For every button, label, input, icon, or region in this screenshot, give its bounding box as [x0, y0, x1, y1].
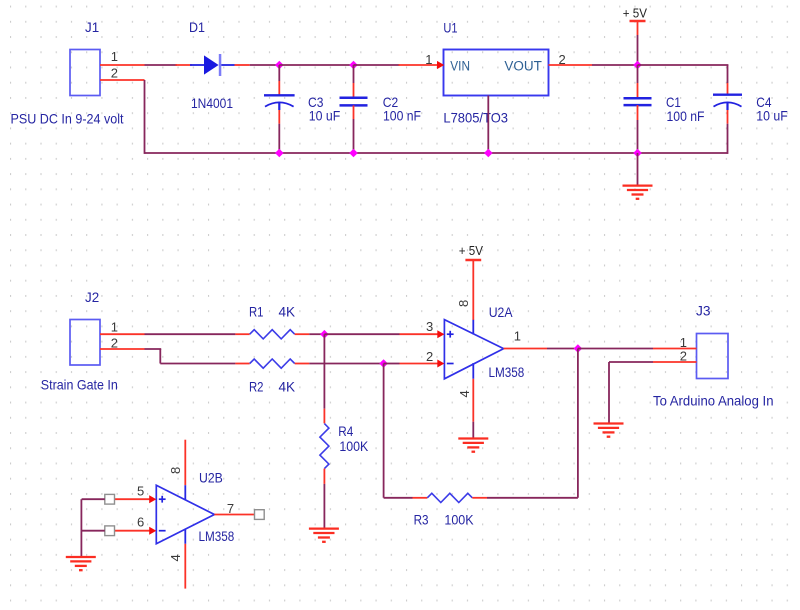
ground U2A: [458, 439, 488, 452]
J2 pin 1: [100, 320, 145, 335]
svg-text:8: 8: [168, 467, 183, 474]
no-connect square pin5: [105, 494, 115, 504]
capacitor C4 10uF: [713, 65, 788, 154]
no-connect square pin6: [105, 526, 115, 536]
svg-text:2: 2: [559, 52, 566, 67]
wire pin6 to left rail: [82, 530, 105, 532]
svg-text:7: 7: [227, 501, 234, 516]
wire feedback node down: [383, 364, 385, 498]
svg-text:100 nF: 100 nF: [383, 107, 421, 123]
U2A pin 2: [400, 349, 445, 368]
svg-text:2: 2: [680, 349, 687, 364]
wire C2 to U1: [354, 64, 400, 66]
svg-text:3: 3: [426, 319, 433, 334]
capacitor C1 100nF: [624, 65, 705, 153]
node junction C3 top: [275, 61, 284, 70]
svg-text:6: 6: [137, 515, 144, 530]
svg-text:2: 2: [111, 66, 118, 81]
ground J3: [594, 424, 624, 437]
svg-text:1: 1: [111, 49, 118, 64]
node junction C2 top: [349, 61, 358, 70]
node junction +5V / C1: [633, 61, 642, 70]
wire R3 to output node: [487, 349, 578, 498]
svg-text:J3: J3: [696, 302, 711, 318]
U2A pin 1 output: [504, 328, 547, 348]
svg-text:D1: D1: [189, 19, 205, 35]
J3 pin 2: [653, 349, 697, 364]
connector J2: [70, 289, 100, 365]
no-connect square pin7: [255, 510, 265, 520]
wire R1 to node: [309, 333, 324, 335]
node junction U1 gnd: [484, 149, 493, 158]
svg-text:4K: 4K: [279, 379, 296, 395]
node junction C1 bottom: [633, 149, 642, 158]
svg-text:VIN: VIN: [450, 59, 470, 74]
svg-text:10 uF: 10 uF: [756, 107, 788, 123]
svg-text:+ 5V: + 5V: [623, 6, 647, 21]
resistor R1 4K: [235, 304, 309, 339]
U2A pin 4 ground: [472, 379, 474, 438]
resistor R2 4K: [235, 359, 309, 395]
svg-text:100K: 100K: [339, 438, 368, 454]
J3 pin 1: [653, 335, 697, 350]
svg-text:1: 1: [425, 52, 432, 67]
svg-text:R2: R2: [249, 379, 264, 395]
svg-text:1N4001: 1N4001: [191, 95, 233, 111]
ground U2B inputs: [66, 557, 96, 570]
wire pin5 to left rail: [82, 498, 105, 500]
svg-text:8: 8: [456, 300, 471, 307]
U1 ground pin: [487, 96, 489, 154]
svg-text:2: 2: [426, 349, 433, 364]
wire J1 pin2 down: [144, 80, 146, 154]
diode D1 1N4001: [176, 19, 250, 111]
svg-text:R3: R3: [414, 512, 429, 528]
U2A pin 3: [400, 319, 445, 338]
wire C3 bottom: [278, 124, 280, 153]
U2B pin 5: [115, 484, 157, 504]
op-amp U2A: [444, 300, 524, 398]
U1 pin 2 VOUT: [549, 52, 593, 67]
node junction C3 bottom: [275, 149, 284, 158]
svg-text:4: 4: [457, 390, 472, 397]
node junction output: [574, 344, 583, 353]
wire feedback bottom left: [384, 497, 413, 499]
U2B pin 6: [115, 515, 157, 535]
wire C2 bottom: [353, 119, 355, 153]
node junction R2/R3: [379, 359, 388, 368]
wire output to node: [547, 348, 578, 350]
svg-text:J2: J2: [85, 289, 99, 305]
svg-text:J1: J1: [85, 19, 99, 35]
svg-text:4K: 4K: [279, 304, 296, 320]
svg-text:U2B: U2B: [199, 469, 223, 485]
wire node to U2A pin3: [324, 333, 399, 335]
regulator U1 L7805: [443, 20, 548, 126]
power +5V opamp: [459, 243, 483, 320]
resistor R3 100K: [413, 493, 488, 527]
svg-text:To Arduino Analog In: To Arduino Analog In: [653, 393, 774, 409]
bottom rail wire: [145, 152, 728, 154]
wire J3.2 to ground: [609, 362, 653, 423]
svg-text:VOUT: VOUT: [504, 59, 542, 74]
svg-text:LM358: LM358: [199, 528, 235, 544]
wire J2.2 jog down: [145, 349, 236, 364]
svg-text:R1: R1: [249, 304, 264, 320]
svg-text:5: 5: [137, 484, 144, 499]
svg-text:4: 4: [168, 554, 183, 561]
wire node to U2A pin2: [384, 363, 400, 365]
wire node to J3 pin1: [578, 348, 653, 350]
svg-text:10 uF: 10 uF: [309, 107, 341, 123]
svg-text:100 nF: 100 nF: [667, 108, 705, 124]
wire R2 to node: [309, 363, 383, 365]
svg-text:Strain Gate In: Strain Gate In: [41, 377, 118, 393]
svg-text:U2A: U2A: [489, 304, 513, 320]
wire C3 to C2: [279, 64, 353, 66]
wire to ground: [637, 153, 639, 185]
wire J2.1 to R1: [145, 333, 236, 335]
wire left rail down: [80, 499, 82, 556]
svg-text:U1: U1: [443, 20, 457, 36]
connector J1: [70, 19, 100, 96]
svg-text:L7805/TO3: L7805/TO3: [443, 110, 508, 126]
J1 pin 1: [100, 49, 145, 65]
svg-text:PSU DC In 9-24 volt: PSU DC In 9-24 volt: [11, 110, 124, 126]
U1 pin 1 VIN: [399, 52, 445, 69]
capacitor C2 100nF: [340, 65, 422, 123]
capacitor C3 10uF: [264, 65, 340, 124]
U2B pin 4: [184, 544, 186, 589]
connector J3: [696, 302, 728, 378]
power +5V top: [623, 6, 647, 66]
resistor R4 100K: [320, 334, 369, 528]
op-amp U2B: [156, 440, 234, 562]
ground R4: [309, 529, 339, 542]
wire +5V node to C4: [638, 64, 729, 66]
wire D1 to node C3: [250, 64, 280, 66]
ground main rail: [623, 186, 653, 199]
svg-text:1: 1: [514, 328, 521, 343]
node junction C2 bottom: [349, 149, 358, 158]
svg-text:R4: R4: [338, 423, 353, 439]
svg-text:LM358: LM358: [489, 364, 525, 380]
J1 pin 2: [100, 66, 145, 81]
wire U1.2 to +5V node: [592, 64, 638, 66]
U2B pin 7 output: [214, 501, 254, 516]
svg-text:2: 2: [111, 335, 118, 350]
svg-text:1: 1: [111, 320, 118, 335]
J2 pin 2: [100, 335, 145, 350]
node junction R1/R4: [320, 330, 329, 339]
svg-text:+ 5V: + 5V: [459, 243, 483, 258]
wire J1.1 to D1: [145, 64, 178, 66]
svg-text:100K: 100K: [444, 512, 474, 528]
